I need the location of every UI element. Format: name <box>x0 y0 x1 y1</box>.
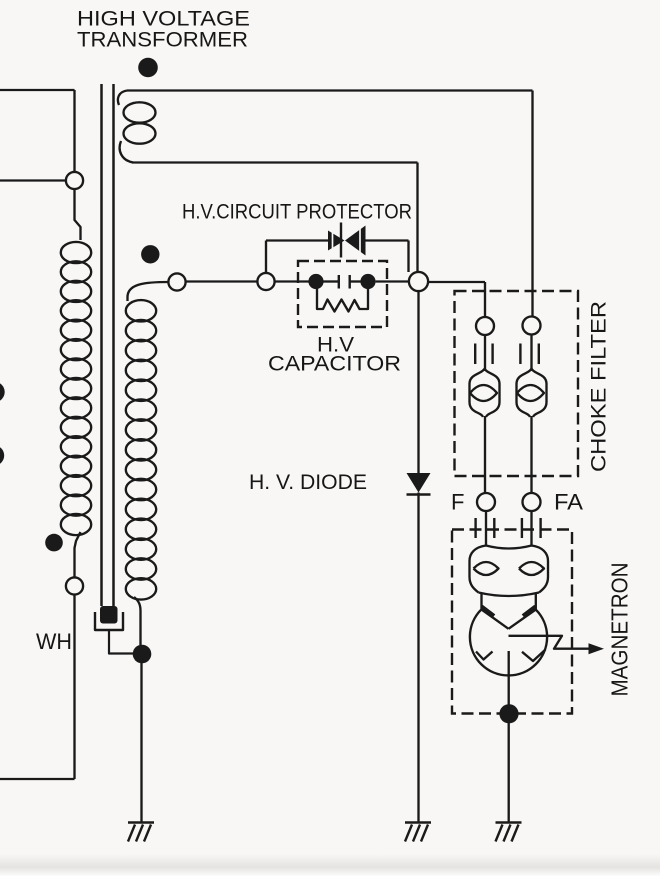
svg-text:CAPACITOR: CAPACITOR <box>268 353 401 376</box>
svg-text:MAGNETRON: MAGNETRON <box>607 563 633 697</box>
svg-text:H.V.CIRCUIT PROTECTOR: H.V.CIRCUIT PROTECTOR <box>182 201 412 224</box>
svg-text:H. V. DIODE: H. V. DIODE <box>249 471 367 494</box>
svg-text:FA: FA <box>554 490 583 515</box>
svg-text:WH: WH <box>36 629 72 654</box>
svg-text:F: F <box>451 490 464 515</box>
svg-text:HIGH VOLTAGE: HIGH VOLTAGE <box>77 8 250 31</box>
svg-text:TRANSFORMER: TRANSFORMER <box>77 29 248 52</box>
svg-text:CHOKE FILTER: CHOKE FILTER <box>588 301 611 472</box>
